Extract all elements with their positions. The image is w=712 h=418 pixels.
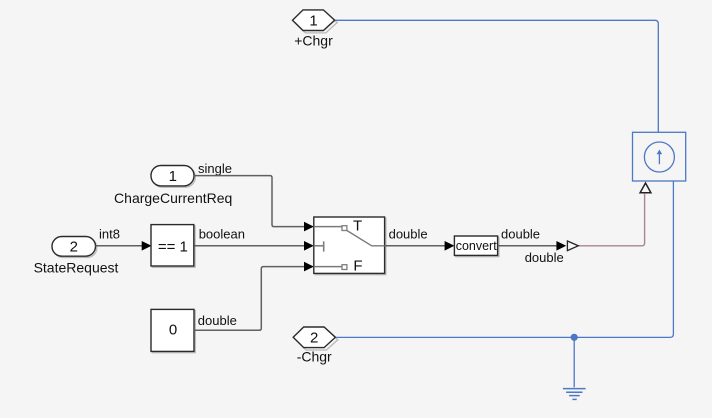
svg-text:double: double xyxy=(389,227,428,242)
label double (convert output, below) xyxy=(525,250,564,265)
wire switch to convert block xyxy=(385,241,455,251)
current source U1 (controlled current source block) xyxy=(633,132,686,181)
label single xyxy=(198,161,232,176)
svg-text:double: double xyxy=(501,227,540,242)
label boolean xyxy=(199,227,245,242)
svg-text:StateRequest: StateRequest xyxy=(34,260,119,276)
label double (constant output) xyxy=(198,313,237,328)
svg-text:convert: convert xyxy=(456,239,498,253)
svg-text:int8: int8 xyxy=(99,227,120,242)
ground symbol xyxy=(563,389,586,400)
svg-text:1: 1 xyxy=(309,13,317,30)
label ChargeCurrentReq xyxy=(114,190,232,206)
svg-text:T: T xyxy=(353,218,362,235)
label double (convert output, above) xyxy=(501,227,540,242)
convert block (data type conversion) xyxy=(454,236,499,257)
svg-text:double: double xyxy=(525,250,564,265)
junction node (blue dot) xyxy=(571,334,578,341)
svg-text:double: double xyxy=(198,313,237,328)
constant 0 block xyxy=(151,309,195,352)
physical signal line (maroon) from converter boundary to current source port xyxy=(579,194,645,246)
label StateRequest xyxy=(34,260,119,276)
physical signal input port triangle of current source xyxy=(640,183,651,193)
svg-text:0: 0 xyxy=(169,321,177,338)
svg-text:-Chgr: -Chgr xyxy=(297,349,332,365)
wire StateRequest to compare block xyxy=(96,241,152,251)
wire compare to switch control input xyxy=(194,241,313,251)
svg-text:F: F xyxy=(353,257,362,274)
label double (switch output) xyxy=(389,227,428,242)
hollow triangle port at signal boundary xyxy=(567,241,578,251)
switch block xyxy=(314,217,386,275)
label -Chgr xyxy=(297,349,332,365)
wire +Chgr to current source (electrical, blue) xyxy=(335,20,659,132)
svg-text:1: 1 xyxy=(169,168,177,185)
wire ChargeCurrentReq to switch T input xyxy=(194,176,314,232)
label +Chgr xyxy=(294,33,333,49)
wire -Chgr to current source bottom (electrical, blue) xyxy=(335,181,673,337)
svg-text:== 1: == 1 xyxy=(158,239,188,256)
outport 2 -Chgr (hexagon) xyxy=(293,327,338,350)
svg-text:2: 2 xyxy=(70,239,78,256)
wire junction to ground xyxy=(573,337,575,387)
wire convert to PS boundary with arrowhead xyxy=(498,241,567,251)
svg-text:boolean: boolean xyxy=(199,227,245,242)
F input stub and square xyxy=(314,266,342,268)
control input stub with tick xyxy=(314,245,324,247)
compare block ==1 xyxy=(151,225,195,268)
svg-text:single: single xyxy=(198,161,232,176)
inport 1 ChargeCurrentReq (rounded block) xyxy=(151,166,195,188)
svg-text:+Chgr: +Chgr xyxy=(294,33,333,49)
outport 1 +Chgr (hexagon) xyxy=(293,10,338,33)
inport 2 StateRequest (rounded block) xyxy=(52,237,97,258)
svg-text:2: 2 xyxy=(310,330,318,347)
switch lever diagonal xyxy=(347,231,385,246)
wire constant 0 to switch F input xyxy=(194,262,314,330)
T input stub and square xyxy=(314,226,342,228)
svg-text:ChargeCurrentReq: ChargeCurrentReq xyxy=(114,190,232,206)
label int8 xyxy=(99,227,120,242)
